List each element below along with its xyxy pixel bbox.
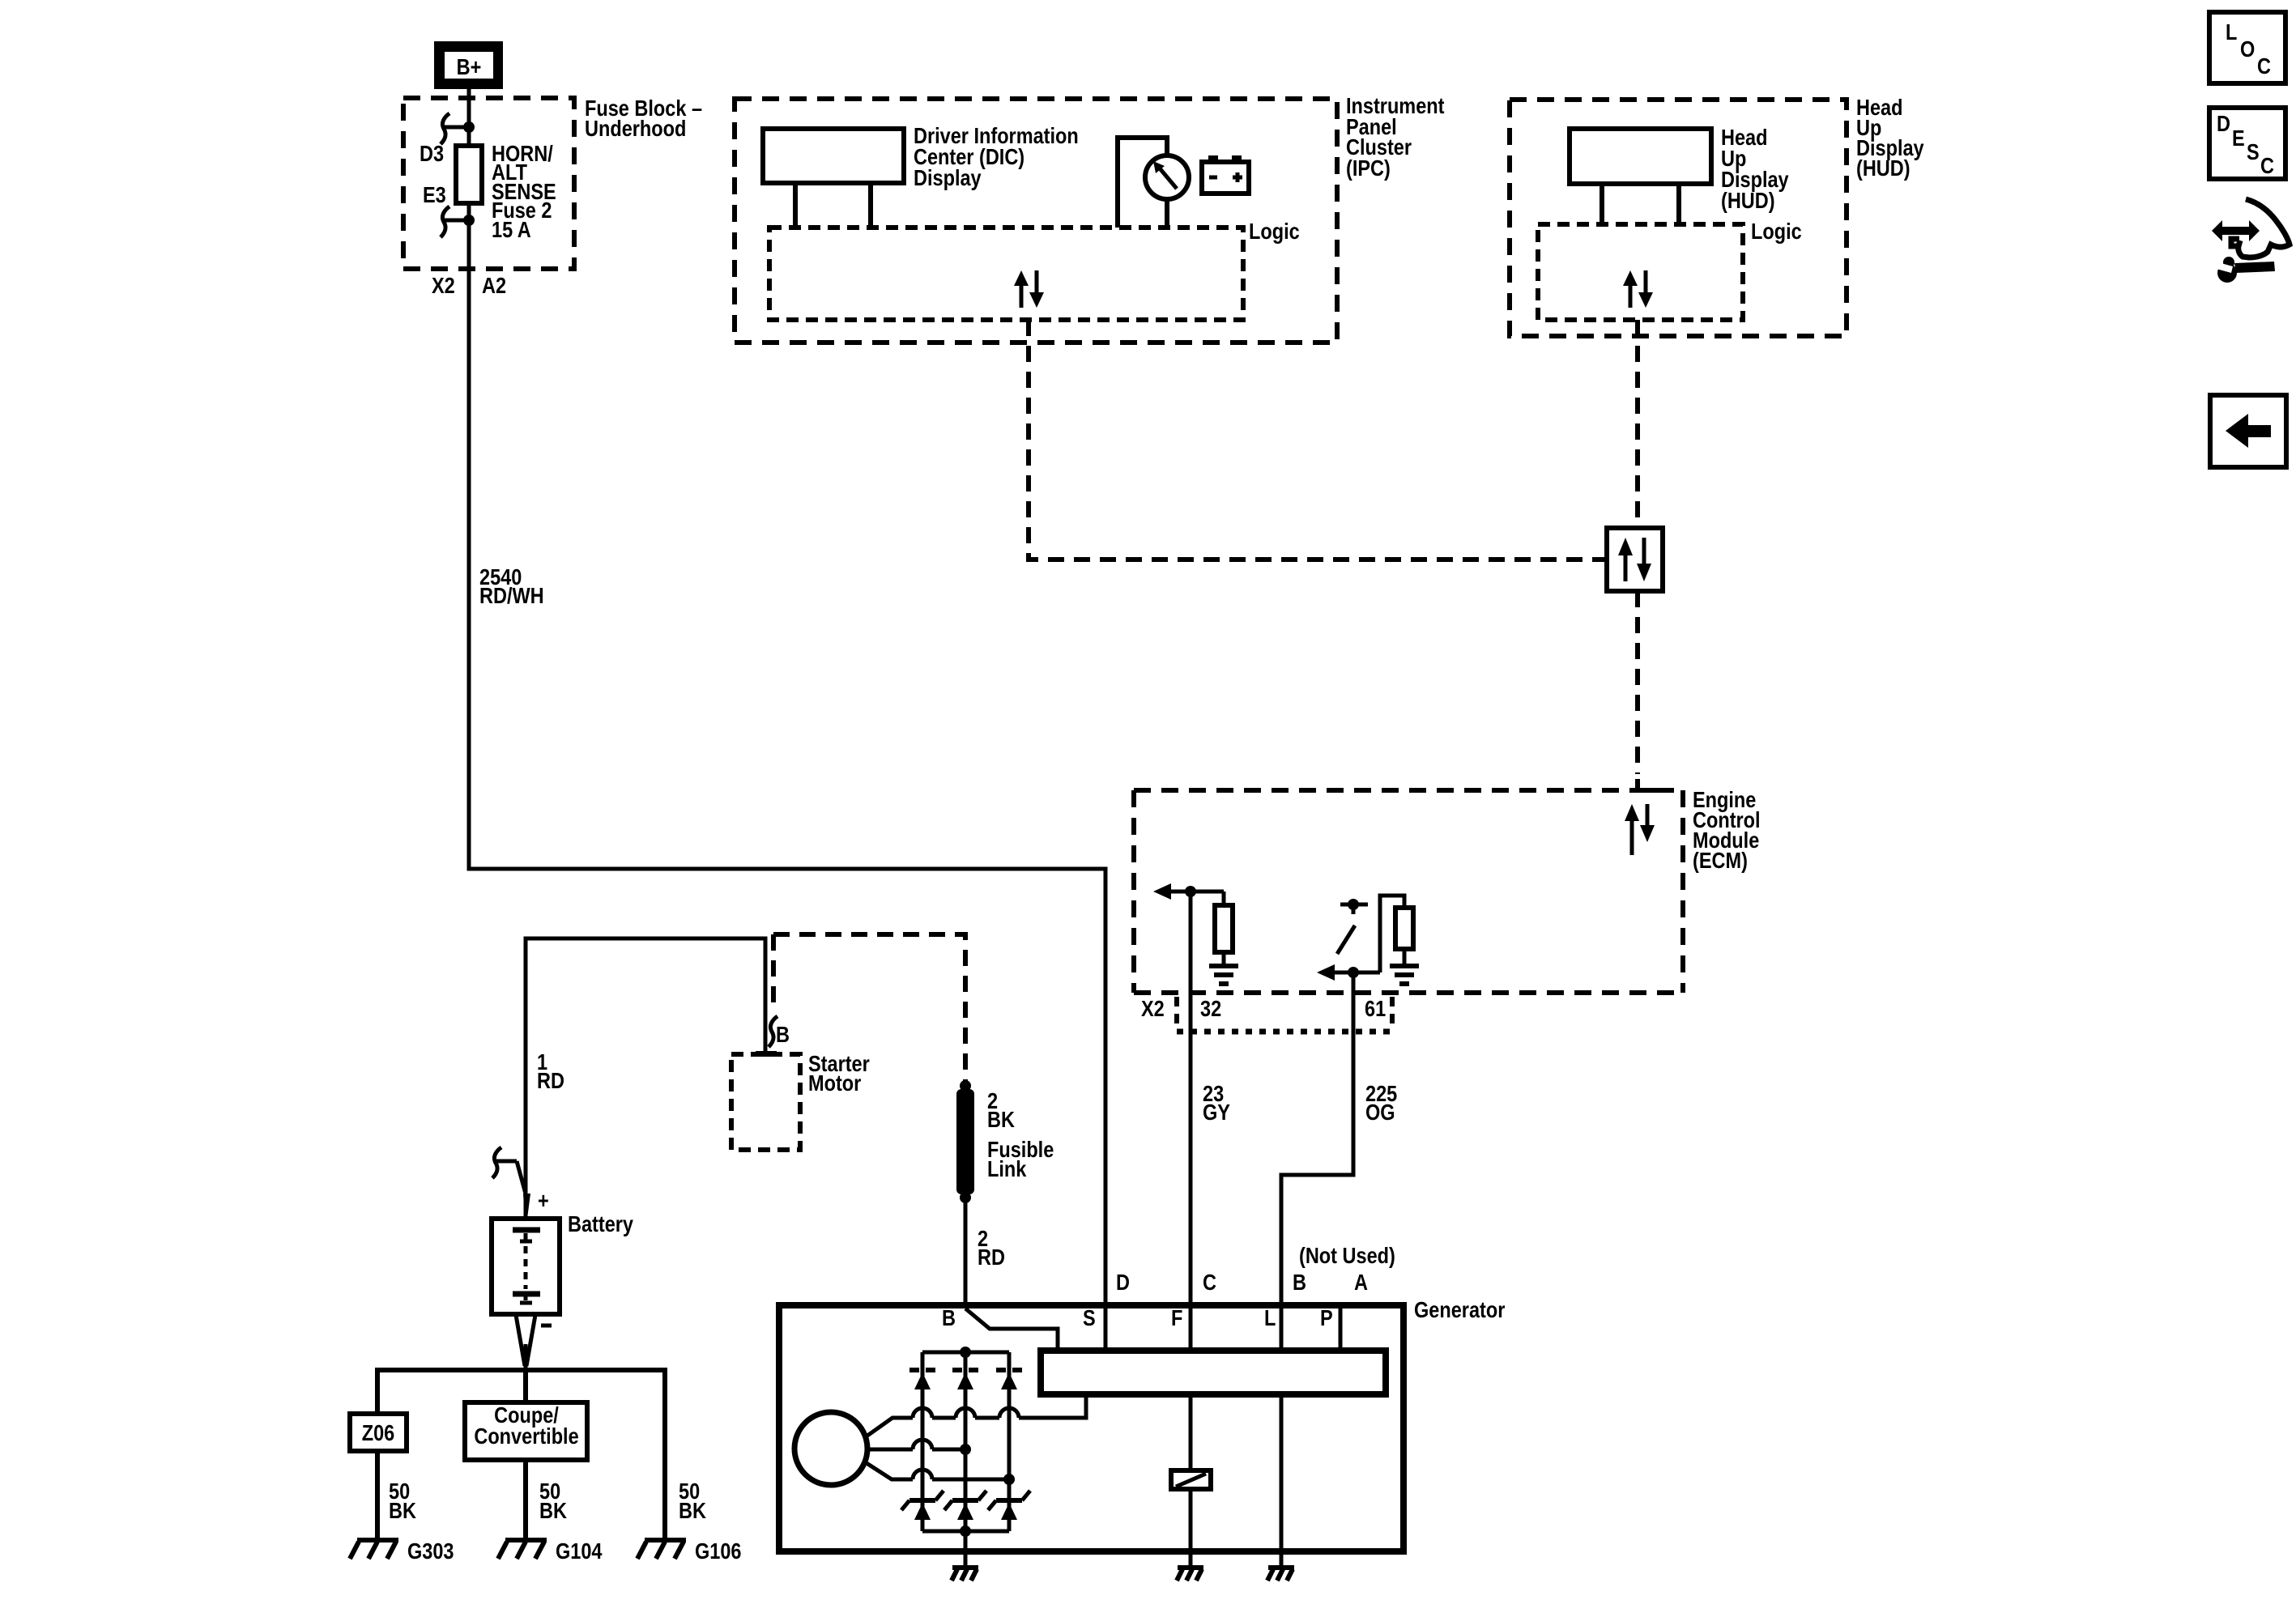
hook clip at battery positive bbox=[492, 1147, 530, 1219]
svg-text:Convertible: Convertible bbox=[474, 1424, 578, 1449]
svg-text:Underhood: Underhood bbox=[585, 117, 686, 141]
svg-text:G106: G106 bbox=[695, 1539, 742, 1564]
svg-text:Logic: Logic bbox=[1751, 219, 1802, 244]
hook clip at fuse bottom node bbox=[441, 206, 475, 237]
svg-text:E: E bbox=[2232, 126, 2245, 151]
IPC logic data arrows up/down bbox=[1014, 270, 1044, 308]
svg-text:Motor: Motor bbox=[808, 1071, 861, 1096]
signal ground inside ECM (left) bbox=[1209, 966, 1238, 984]
Z06 box bbox=[350, 1414, 407, 1451]
svg-text:S: S bbox=[1083, 1306, 1096, 1330]
gauge meter circle bbox=[1145, 155, 1189, 199]
instrument panel cluster IPC dashed box bbox=[735, 99, 1337, 343]
wire Coupe box to ground bbox=[523, 1460, 528, 1538]
B terminal internal connection to regulator bbox=[965, 1308, 1058, 1351]
wire 2 RD fusible link to generator B bbox=[964, 1198, 968, 1305]
navigation icon DESC bbox=[2209, 108, 2285, 179]
zener diode 3 bbox=[988, 1491, 1030, 1520]
label Engine Control Module (ECM) bbox=[1693, 788, 1761, 873]
svg-text:P: P bbox=[1320, 1306, 1333, 1330]
DIC display legs bbox=[793, 183, 798, 228]
hook clip at fuse top node bbox=[441, 113, 475, 144]
svg-text:Z06: Z06 bbox=[362, 1421, 395, 1445]
svg-text:B+: B+ bbox=[457, 55, 482, 79]
HUD logic dashed box bbox=[1538, 224, 1743, 320]
ECM internal left arrow to pin 32 bbox=[1153, 883, 1224, 900]
rectifier branch verticals bbox=[922, 1352, 1009, 1531]
HUD logic data arrows up/down bbox=[1623, 270, 1653, 308]
svg-text:RD: RD bbox=[978, 1245, 1005, 1270]
ground G303 bbox=[350, 1539, 454, 1564]
wire label 23 GY bbox=[1203, 1082, 1230, 1125]
wire Z06 to ground bbox=[375, 1451, 380, 1538]
svg-text:X2: X2 bbox=[1141, 997, 1165, 1021]
navigation icon LOC bbox=[2209, 12, 2285, 83]
svg-text:B: B bbox=[942, 1306, 956, 1330]
rotor circle bbox=[794, 1412, 867, 1485]
svg-text:B: B bbox=[1293, 1270, 1306, 1295]
svg-text:BK: BK bbox=[679, 1499, 706, 1523]
label battery minus bbox=[541, 1324, 552, 1328]
navigation icon back arrow bbox=[2210, 395, 2286, 467]
svg-text:BK: BK bbox=[389, 1499, 416, 1523]
rectifier top rail bbox=[922, 1347, 1009, 1358]
svg-text:Generator: Generator bbox=[1414, 1298, 1505, 1322]
label Head Up Display (HUD) inner bbox=[1721, 126, 1789, 213]
gauge lower stub bbox=[1165, 199, 1169, 228]
svg-text:61: 61 bbox=[1365, 997, 1386, 1021]
signal ground inside ECM (right) bbox=[1390, 966, 1419, 984]
svg-text:Display: Display bbox=[914, 166, 982, 190]
wire label 2 RD bbox=[978, 1227, 1005, 1270]
stator phase line bottom bbox=[867, 1463, 1015, 1485]
starter motor dashed box bbox=[731, 1054, 800, 1150]
wire label 1 RD bbox=[537, 1050, 564, 1093]
svg-text:(HUD): (HUD) bbox=[1721, 189, 1775, 213]
wire 225 OG from ECM 61 to generator L bbox=[1281, 972, 1353, 1305]
svg-text:G303: G303 bbox=[407, 1539, 454, 1564]
battery negative crimp bbox=[516, 1315, 535, 1370]
svg-text:X2: X2 bbox=[432, 274, 455, 298]
dashed serial data wire from HUD logic to data link bbox=[1635, 320, 1640, 528]
svg-text:D3: D3 bbox=[420, 142, 444, 166]
ECM internal data arrows up/down bbox=[1625, 804, 1655, 855]
IPC logic dashed box bbox=[769, 228, 1243, 320]
svg-text:L: L bbox=[1264, 1306, 1276, 1330]
ECM connector row X2 32 61 bbox=[1141, 997, 1392, 1032]
svg-text:BK: BK bbox=[539, 1499, 567, 1523]
HUD display rectangle bbox=[1570, 129, 1711, 184]
zener diode 1 bbox=[901, 1491, 944, 1520]
svg-text:G104: G104 bbox=[556, 1539, 603, 1564]
generator terminals B S F L P bbox=[942, 1306, 1333, 1330]
pull-up resistor on pin 61 bbox=[1395, 908, 1413, 964]
ground G104 bbox=[498, 1539, 603, 1564]
label Head Up Display (HUD) outer bbox=[1856, 96, 1924, 181]
svg-text:(Not Used): (Not Used) bbox=[1299, 1244, 1395, 1268]
ground G106 bbox=[637, 1539, 742, 1564]
head up display HUD dashed box bbox=[1510, 100, 1847, 336]
svg-text:RD: RD bbox=[537, 1069, 564, 1093]
switch feed from internal supply through resistor bbox=[1380, 896, 1404, 972]
DIC display rectangle bbox=[763, 129, 904, 183]
top diode 3 bbox=[996, 1370, 1022, 1389]
terminal stubs S F L P into regulator bbox=[1105, 1305, 1340, 1351]
svg-text:+: + bbox=[538, 1189, 549, 1213]
svg-text:RD/WH: RD/WH bbox=[479, 584, 544, 608]
hand pointer with double arrow and wrench icon bbox=[2212, 199, 2290, 283]
top diode 1 bbox=[909, 1370, 935, 1389]
HUD display legs bbox=[1600, 184, 1604, 224]
label Starter Motor bbox=[808, 1052, 870, 1096]
svg-text:O: O bbox=[2240, 37, 2255, 62]
svg-text:(HUD): (HUD) bbox=[1856, 156, 1910, 181]
svg-text:BK: BK bbox=[987, 1108, 1015, 1132]
dashed wire from starter B to fusible link bbox=[773, 934, 965, 1081]
stator phase line middle bbox=[867, 1440, 971, 1455]
ground bus wire from battery negative bbox=[377, 1370, 665, 1538]
ground below generator L bbox=[1267, 1568, 1294, 1581]
generator box bbox=[779, 1305, 1404, 1551]
voltage regulator bar bbox=[1041, 1351, 1386, 1394]
L wire to ground bbox=[1280, 1394, 1284, 1565]
svg-text:Battery: Battery bbox=[568, 1212, 634, 1236]
svg-text:(ECM): (ECM) bbox=[1693, 849, 1748, 873]
generator internal ground wire bbox=[964, 1531, 968, 1565]
fuse value label bbox=[492, 142, 556, 242]
svg-text:F: F bbox=[1171, 1306, 1182, 1330]
svg-text:L: L bbox=[2226, 20, 2237, 45]
dashed serial data wire from data link to ECM bbox=[1635, 591, 1640, 774]
svg-text:32: 32 bbox=[1200, 997, 1221, 1021]
zener diode 2 bbox=[944, 1491, 986, 1520]
wire 23 GY from ECM 32 to generator C bbox=[1189, 891, 1193, 1305]
fuse block underhood dashed box bbox=[403, 98, 574, 269]
gauge meter icon wiring bbox=[1118, 138, 1167, 228]
label Driver Information Center (DIC) Display bbox=[914, 124, 1079, 190]
fusible link 2 BK bbox=[956, 1080, 974, 1203]
dashed serial data wire from IPC logic to data link bbox=[1029, 320, 1609, 560]
generator connector pins D C B A bbox=[1116, 1270, 1368, 1295]
engine control module ECM dashed box bbox=[1134, 779, 1683, 993]
starter motor terminal bar B bbox=[756, 1051, 777, 1057]
hook clip at starter terminal bbox=[769, 1016, 777, 1047]
label Fuse Block - Underhood bbox=[585, 96, 702, 141]
svg-text:Link: Link bbox=[987, 1157, 1027, 1181]
svg-text:A2: A2 bbox=[482, 274, 506, 298]
Coupe/Convertible box bbox=[465, 1402, 587, 1460]
svg-text:E3: E3 bbox=[423, 183, 446, 207]
power symbol B+ bbox=[434, 41, 503, 89]
svg-text:A: A bbox=[1354, 1270, 1368, 1295]
wire labels 50 BK bbox=[389, 1479, 706, 1523]
svg-text:(IPC): (IPC) bbox=[1346, 156, 1391, 181]
svg-text:C: C bbox=[2257, 54, 2271, 79]
ground below generator F bbox=[1177, 1568, 1203, 1581]
svg-text:C: C bbox=[2260, 154, 2274, 178]
gauge needle bbox=[1153, 161, 1177, 189]
ECM internal left arrow to pin 61 bbox=[1317, 964, 1380, 981]
svg-text:15 A: 15 A bbox=[492, 218, 531, 242]
svg-text:OG: OG bbox=[1365, 1100, 1395, 1125]
svg-text:Logic: Logic bbox=[1249, 219, 1300, 244]
wire 1 RD battery positive to starter bbox=[526, 938, 765, 1217]
fuse F2 HORN/ALT SENSE 15A bbox=[456, 146, 482, 203]
field lamp symbol on F bbox=[1171, 1394, 1211, 1565]
svg-text:B: B bbox=[776, 1023, 790, 1047]
label Instrument Panel Cluster (IPC) bbox=[1346, 94, 1445, 181]
svg-text:D: D bbox=[2217, 112, 2230, 136]
data link connector box with arrows bbox=[1607, 528, 1663, 591]
label 2 BK Fusible Link bbox=[987, 1089, 1054, 1181]
wire label 2540 RD/WH bbox=[479, 565, 544, 608]
svg-text:GY: GY bbox=[1203, 1100, 1230, 1125]
ground below generator B bbox=[952, 1568, 978, 1581]
top diode 2 bbox=[952, 1370, 978, 1389]
pull-up resistor on pin 32 bbox=[1215, 891, 1233, 964]
svg-text:C: C bbox=[1203, 1270, 1216, 1295]
ECM internal switch bbox=[1337, 899, 1368, 954]
wire 2540 RD/WH from B+ through fuse to generator D bbox=[469, 87, 1105, 1305]
svg-text:S: S bbox=[2247, 140, 2260, 164]
battery telltale icon bbox=[1202, 155, 1249, 194]
battery bbox=[492, 1219, 560, 1314]
stator sense line to regulator bbox=[867, 1394, 1086, 1436]
rectifier bottom rail bbox=[922, 1526, 1009, 1537]
wire label 225 OG bbox=[1365, 1082, 1397, 1125]
svg-text:D: D bbox=[1116, 1270, 1130, 1295]
connector pins X2 A2 bbox=[432, 274, 506, 298]
